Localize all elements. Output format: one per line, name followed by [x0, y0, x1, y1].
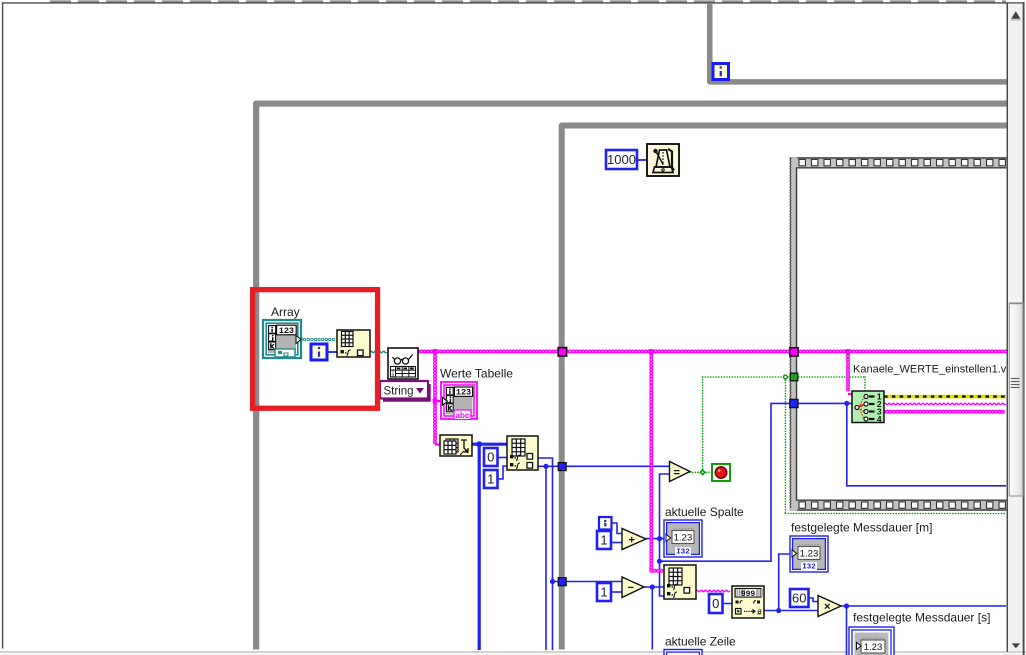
svg-text:abc: abc [456, 411, 470, 420]
svg-text:+: + [629, 534, 635, 546]
svg-text:1.23: 1.23 [674, 533, 693, 544]
svg-text:I32: I32 [802, 564, 816, 572]
svg-text:=: = [674, 467, 680, 479]
svg-text:999: 999 [741, 590, 756, 599]
svg-text:123: 123 [279, 326, 294, 336]
svg-text:Kanaele_WERTE_einstellen1.v: Kanaele_WERTE_einstellen1.v [853, 364, 1007, 376]
svg-text:123: 123 [456, 388, 471, 398]
svg-text:1: 1 [487, 472, 494, 487]
svg-text:Werte Tabelle: Werte Tabelle [440, 367, 513, 381]
svg-text:1.23: 1.23 [864, 642, 883, 653]
svg-text:4: 4 [877, 414, 882, 424]
svg-text:1000: 1000 [607, 152, 636, 167]
svg-text:1: 1 [600, 585, 607, 600]
svg-text:60: 60 [792, 591, 806, 606]
svg-text:festgelegte Messdauer [s]: festgelegte Messdauer [s] [853, 611, 990, 625]
svg-text:aktuelle Spalte: aktuelle Spalte [665, 505, 744, 519]
svg-text:1: 1 [600, 533, 607, 548]
svg-text:String: String [384, 386, 414, 398]
svg-text:#: # [757, 608, 762, 617]
svg-text:Array: Array [271, 305, 300, 319]
svg-text:1.23: 1.23 [800, 549, 819, 560]
svg-text:0: 0 [487, 450, 494, 465]
svg-text:festgelegte Messdauer [m]: festgelegte Messdauer [m] [791, 521, 932, 535]
svg-text:−: − [628, 582, 634, 594]
svg-text:0: 0 [712, 596, 719, 611]
svg-text:aktuelle Zeile: aktuelle Zeile [665, 635, 736, 649]
svg-text:×: × [824, 601, 830, 613]
svg-text:I32: I32 [676, 549, 690, 557]
